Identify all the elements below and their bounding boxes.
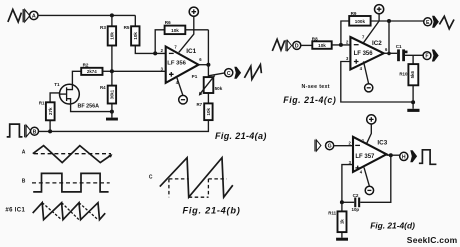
svg-text:R11: R11	[328, 211, 336, 216]
svg-text:3: 3	[346, 56, 349, 61]
svg-text:6: 6	[385, 47, 388, 52]
svg-text:B: B	[22, 179, 26, 185]
svg-text:D: D	[295, 44, 299, 50]
svg-text:E: E	[426, 20, 430, 26]
svg-text:H: H	[402, 155, 406, 161]
svg-text:T1: T1	[54, 82, 60, 87]
svg-text:F: F	[425, 54, 428, 60]
svg-text:R3: R3	[100, 25, 106, 30]
svg-text:4: 4	[360, 66, 363, 71]
svg-text:G: G	[328, 144, 332, 150]
svg-text:10k: 10k	[318, 43, 326, 48]
svg-text:C2: C2	[353, 193, 359, 198]
svg-text:10k: 10k	[133, 32, 138, 40]
svg-text:N-see text: N-see text	[302, 84, 330, 90]
svg-text:R10: R10	[399, 71, 408, 76]
svg-text:6: 6	[199, 57, 202, 62]
svg-text:A: A	[32, 14, 36, 20]
svg-text:#6 IC1: #6 IC1	[5, 207, 25, 213]
svg-text:50k: 50k	[215, 86, 223, 91]
svg-text:R4: R4	[100, 85, 106, 90]
svg-text:4: 4	[360, 170, 363, 175]
svg-text:LF 357: LF 357	[355, 154, 375, 160]
svg-text:100k: 100k	[355, 19, 366, 24]
svg-text:Fig. 21-4(c): Fig. 21-4(c)	[283, 95, 336, 105]
svg-text:A: A	[22, 149, 26, 155]
svg-text:C: C	[149, 175, 153, 181]
svg-text:2: 2	[161, 48, 164, 53]
svg-text:7: 7	[362, 34, 365, 39]
svg-text:2: 2	[346, 39, 349, 44]
svg-text:C: C	[227, 71, 231, 77]
svg-text:2k74: 2k74	[87, 69, 97, 74]
svg-text:R7: R7	[197, 102, 203, 107]
svg-text:BF 256A: BF 256A	[78, 103, 100, 109]
svg-text:10k: 10k	[171, 28, 179, 33]
svg-text:R6: R6	[165, 20, 171, 25]
svg-text:10k: 10k	[110, 32, 115, 40]
svg-text:7: 7	[174, 44, 177, 49]
svg-text:LF 356: LF 356	[167, 61, 186, 67]
svg-text:C1: C1	[396, 44, 402, 49]
svg-text:R2: R2	[83, 62, 89, 67]
svg-text:27k: 27k	[48, 107, 53, 115]
svg-text:R8: R8	[312, 36, 318, 41]
svg-text:2: 2	[349, 140, 352, 145]
svg-text:Fig. 21-4(d): Fig. 21-4(d)	[370, 220, 415, 230]
svg-text:10k: 10k	[206, 108, 211, 116]
svg-text:IC1: IC1	[186, 48, 196, 55]
svg-text:R9: R9	[351, 11, 357, 16]
svg-text:IC2: IC2	[372, 40, 382, 47]
svg-text:10p: 10p	[352, 207, 360, 212]
svg-text:30k1: 30k1	[109, 89, 114, 99]
svg-text:LF 356: LF 356	[354, 51, 374, 57]
svg-text:5k6: 5k6	[410, 70, 415, 78]
svg-text:1k: 1k	[339, 219, 344, 224]
svg-text:Fig. 21-4(b): Fig. 21-4(b)	[183, 205, 241, 215]
svg-text:IC3: IC3	[377, 139, 387, 146]
svg-text:B: B	[33, 129, 37, 135]
svg-text:Fig. 21-4(a): Fig. 21-4(a)	[215, 131, 267, 141]
svg-text:R1: R1	[39, 101, 45, 106]
svg-text:SeekIC.com: SeekIC.com	[407, 235, 458, 245]
svg-text:P1: P1	[192, 74, 198, 79]
svg-text:R5: R5	[124, 25, 130, 30]
